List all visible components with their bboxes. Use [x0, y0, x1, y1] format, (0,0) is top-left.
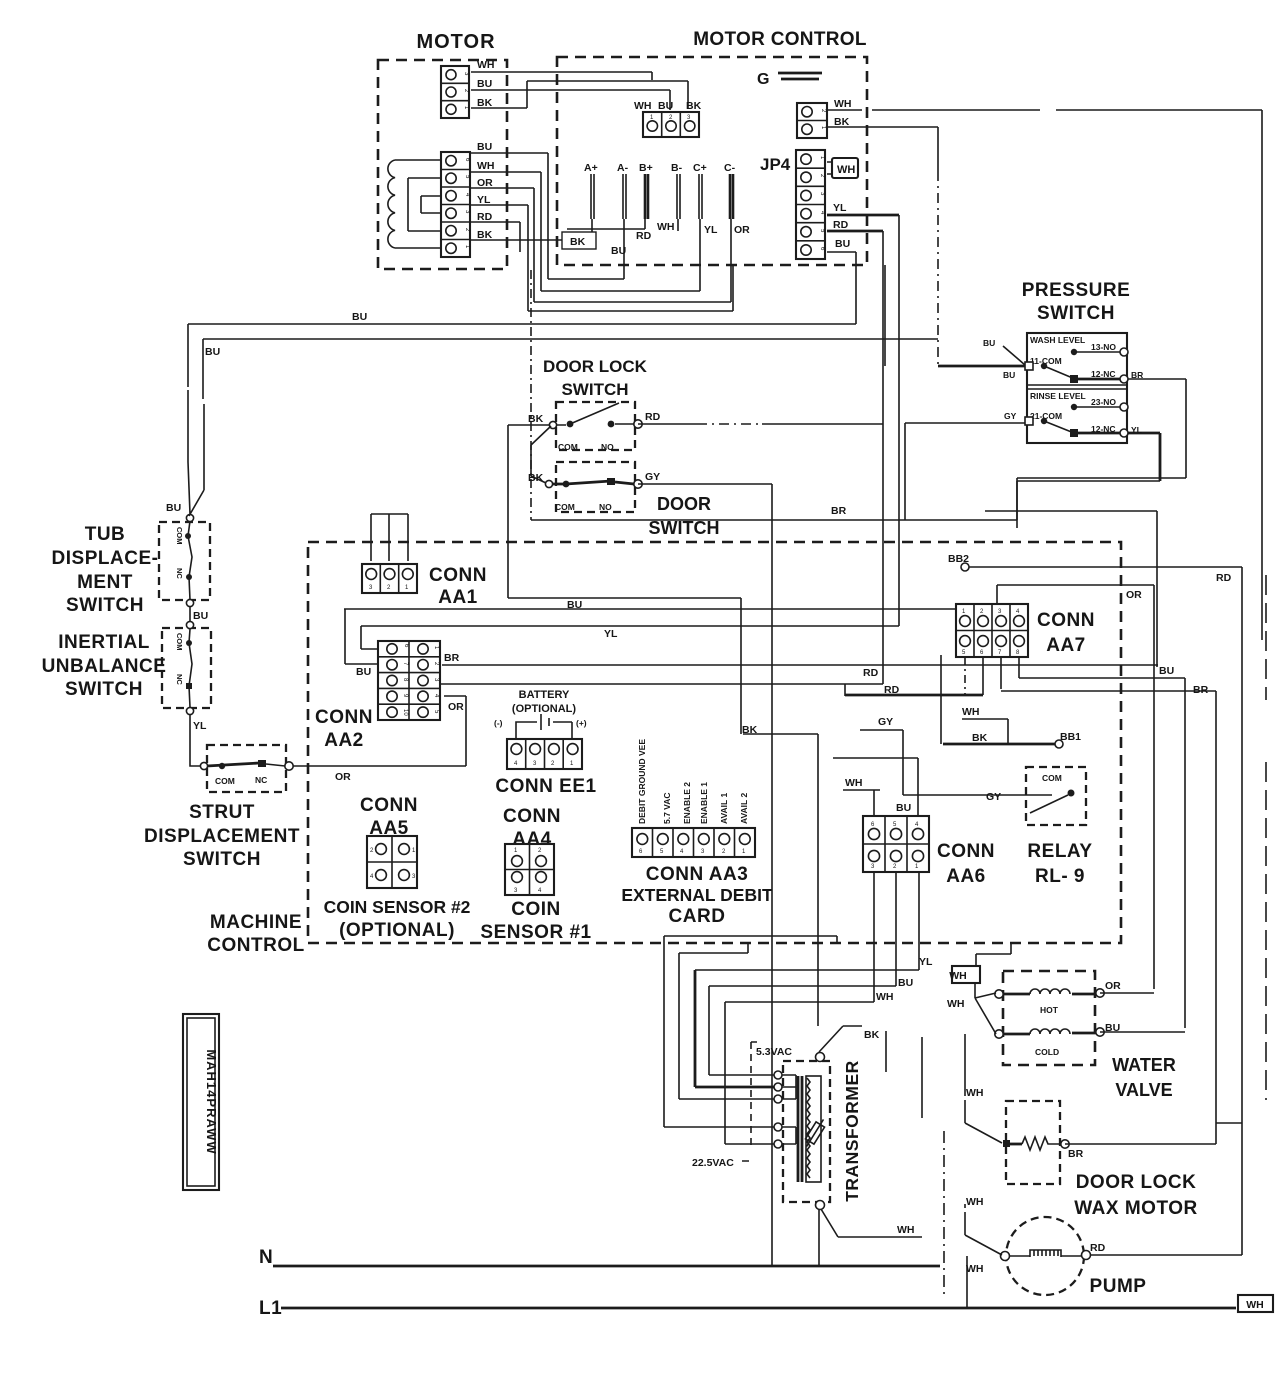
svg-text:(OPTIONAL): (OPTIONAL) — [339, 920, 455, 941]
svg-text:WH: WH — [834, 98, 852, 110]
svg-text:13-NO: 13-NO — [1091, 342, 1116, 352]
svg-text:12-NC: 12-NC — [1091, 369, 1116, 379]
svg-text:CONN: CONN — [315, 707, 373, 728]
svg-text:BU: BU — [611, 245, 626, 257]
svg-text:SWITCH: SWITCH — [183, 849, 261, 870]
svg-text:PUMP: PUMP — [1090, 1276, 1147, 1297]
svg-text:BU: BU — [477, 78, 492, 90]
svg-text:MOTOR: MOTOR — [416, 31, 495, 53]
svg-text:CONN EE1: CONN EE1 — [495, 776, 596, 797]
svg-text:AA1: AA1 — [438, 587, 478, 608]
svg-text:COM: COM — [555, 502, 575, 512]
svg-text:AA6: AA6 — [946, 866, 986, 887]
svg-text:BR: BR — [831, 505, 847, 517]
svg-text:STRUT: STRUT — [189, 802, 255, 823]
svg-text:WH: WH — [477, 59, 495, 71]
svg-text:CONN: CONN — [1037, 610, 1095, 631]
svg-text:DOOR: DOOR — [657, 494, 711, 514]
svg-text:ENABLE 1: ENABLE 1 — [699, 782, 709, 824]
svg-text:BU: BU — [567, 599, 582, 611]
svg-text:RINSE LEVEL: RINSE LEVEL — [1030, 391, 1086, 401]
svg-text:RD: RD — [645, 411, 661, 423]
svg-text:CONN AA3: CONN AA3 — [646, 864, 749, 885]
svg-text:BK: BK — [477, 229, 493, 241]
svg-text:WH: WH — [634, 100, 652, 112]
svg-text:BU: BU — [193, 610, 208, 622]
svg-text:UNBALANCE: UNBALANCE — [42, 656, 167, 677]
svg-text:RL- 9: RL- 9 — [1035, 866, 1085, 887]
svg-text:BK: BK — [528, 413, 544, 425]
svg-text:BU: BU — [477, 141, 492, 153]
svg-text:WH: WH — [876, 991, 894, 1003]
svg-text:BU: BU — [205, 346, 220, 358]
svg-text:NO: NO — [599, 502, 612, 512]
svg-text:BU: BU — [166, 502, 181, 514]
svg-text:SWITCH: SWITCH — [65, 679, 143, 700]
svg-text:AA4: AA4 — [512, 829, 552, 850]
svg-text:NO: NO — [601, 442, 614, 452]
svg-text:BR: BR — [1193, 684, 1209, 696]
svg-text:A-: A- — [617, 162, 629, 174]
svg-text:C+: C+ — [693, 162, 707, 174]
svg-text:ENABLE 2: ENABLE 2 — [682, 782, 692, 824]
svg-text:GY: GY — [986, 791, 1001, 803]
svg-text:NC: NC — [255, 775, 267, 785]
svg-text:DOOR LOCK: DOOR LOCK — [543, 357, 648, 376]
svg-text:WH: WH — [657, 221, 675, 233]
svg-text:NC: NC — [175, 674, 184, 685]
svg-text:CONN: CONN — [360, 795, 418, 816]
svg-text:A+: A+ — [584, 162, 598, 174]
svg-text:BB2: BB2 — [948, 553, 969, 565]
svg-text:BU: BU — [1105, 1022, 1120, 1034]
svg-text:C-: C- — [724, 162, 736, 174]
svg-text:BK: BK — [528, 472, 544, 484]
svg-text:INERTIAL: INERTIAL — [58, 632, 150, 653]
svg-text:WH: WH — [837, 164, 855, 176]
svg-text:B+: B+ — [639, 162, 653, 174]
svg-text:SWITCH: SWITCH — [649, 518, 720, 538]
svg-text:COLD: COLD — [1035, 1047, 1059, 1057]
svg-text:BR: BR — [444, 652, 460, 664]
svg-text:SWITCH: SWITCH — [561, 380, 628, 399]
svg-text:N: N — [259, 1247, 273, 1268]
svg-text:COIN: COIN — [511, 899, 561, 920]
svg-text:OR: OR — [448, 701, 464, 713]
svg-text:WH: WH — [1246, 1299, 1264, 1311]
svg-text:SENSOR #1: SENSOR #1 — [480, 922, 591, 943]
svg-text:BR: BR — [1068, 1148, 1084, 1160]
svg-text:BU: BU — [898, 977, 913, 989]
svg-text:RD: RD — [1216, 572, 1232, 584]
svg-text:BK: BK — [742, 724, 758, 736]
svg-text:COIN SENSOR #2: COIN SENSOR #2 — [324, 897, 471, 917]
svg-text:RD: RD — [477, 211, 493, 223]
svg-text:TRANSFORMER: TRANSFORMER — [842, 1060, 862, 1202]
svg-text:BU: BU — [658, 100, 673, 112]
svg-text:YL: YL — [604, 628, 618, 640]
svg-text:L1: L1 — [259, 1298, 282, 1319]
svg-text:OR: OR — [335, 771, 351, 783]
svg-text:WH: WH — [962, 706, 980, 718]
svg-text:GY: GY — [1004, 411, 1017, 421]
svg-text:RD: RD — [833, 219, 849, 231]
svg-text:BK: BK — [864, 1029, 880, 1041]
svg-text:WH: WH — [897, 1224, 915, 1236]
svg-text:MACHINE: MACHINE — [210, 912, 302, 933]
svg-text:YL: YL — [704, 224, 718, 236]
svg-text:DISPLACE-: DISPLACE- — [52, 548, 159, 569]
svg-text:22.5VAC: 22.5VAC — [692, 1157, 734, 1169]
svg-text:MAH14PRAWW: MAH14PRAWW — [204, 1049, 219, 1154]
svg-text:SWITCH: SWITCH — [66, 595, 144, 616]
svg-text:JP4: JP4 — [760, 155, 791, 174]
svg-text:CONN: CONN — [429, 565, 487, 586]
svg-text:BK: BK — [570, 236, 586, 248]
svg-text:BR: BR — [1131, 370, 1143, 380]
svg-text:YL: YL — [193, 720, 207, 732]
svg-text:BB1: BB1 — [1060, 731, 1081, 743]
svg-text:WH: WH — [949, 970, 967, 982]
svg-text:MENT: MENT — [77, 572, 133, 593]
svg-text:AVAIL 1: AVAIL 1 — [719, 793, 729, 824]
svg-text:DISPLACEMENT: DISPLACEMENT — [144, 826, 300, 847]
svg-text:SWITCH: SWITCH — [1037, 303, 1115, 324]
svg-text:YL: YL — [477, 194, 491, 206]
svg-text:WAX MOTOR: WAX MOTOR — [1074, 1198, 1197, 1219]
svg-text:OR: OR — [1126, 589, 1142, 601]
svg-text:WH: WH — [966, 1263, 984, 1275]
svg-text:BU: BU — [896, 802, 911, 814]
svg-text:BU: BU — [1003, 370, 1015, 380]
svg-text:COM: COM — [558, 442, 578, 452]
svg-text:AA7: AA7 — [1046, 635, 1086, 656]
svg-text:5.7 VAC: 5.7 VAC — [662, 793, 672, 825]
svg-text:BK: BK — [834, 116, 850, 128]
svg-text:COM: COM — [1042, 773, 1062, 783]
svg-text:BU: BU — [352, 311, 367, 323]
svg-text:CONN: CONN — [503, 806, 561, 827]
svg-text:YL: YL — [833, 202, 847, 214]
svg-text:WH: WH — [845, 777, 863, 789]
svg-text:(+): (+) — [576, 718, 587, 728]
svg-text:BU: BU — [835, 238, 850, 250]
svg-text:BK: BK — [477, 97, 493, 109]
svg-text:BK: BK — [972, 732, 988, 744]
svg-text:WH: WH — [477, 160, 495, 172]
svg-text:RD: RD — [863, 667, 879, 679]
svg-text:CONN: CONN — [937, 841, 995, 862]
svg-text:RD: RD — [636, 230, 652, 242]
svg-text:WH: WH — [966, 1087, 984, 1099]
svg-text:COM: COM — [175, 527, 184, 545]
svg-text:HOT: HOT — [1040, 1005, 1059, 1015]
svg-text:BU: BU — [983, 338, 995, 348]
svg-text:(OPTIONAL): (OPTIONAL) — [512, 703, 576, 715]
svg-text:YL: YL — [919, 956, 933, 968]
svg-text:DEBIT GROUND VEE: DEBIT GROUND VEE — [637, 739, 647, 824]
svg-text:PRESSURE: PRESSURE — [1022, 280, 1131, 301]
svg-text:WH: WH — [966, 1196, 984, 1208]
svg-text:10: 10 — [402, 709, 408, 716]
svg-text:AA2: AA2 — [324, 730, 364, 751]
svg-text:OR: OR — [477, 177, 493, 189]
svg-text:GY: GY — [645, 471, 660, 483]
svg-text:OR: OR — [734, 224, 750, 236]
svg-text:BK: BK — [686, 100, 702, 112]
svg-text:EXTERNAL DEBIT: EXTERNAL DEBIT — [621, 885, 773, 905]
svg-text:COM: COM — [215, 776, 235, 786]
svg-text:(-): (-) — [494, 718, 503, 728]
svg-text:TUB: TUB — [85, 524, 126, 545]
svg-text:OR: OR — [1105, 980, 1121, 992]
svg-text:WASH LEVEL: WASH LEVEL — [1030, 335, 1085, 345]
svg-text:NC: NC — [175, 568, 184, 579]
svg-text:BU: BU — [1159, 665, 1174, 677]
svg-text:VALVE: VALVE — [1115, 1080, 1172, 1100]
svg-text:B-: B- — [671, 162, 683, 174]
svg-text:GY: GY — [878, 716, 893, 728]
svg-text:WATER: WATER — [1112, 1055, 1176, 1075]
svg-text:CARD: CARD — [669, 906, 726, 927]
svg-text:5.3VAC: 5.3VAC — [756, 1046, 792, 1058]
svg-text:BATTERY: BATTERY — [519, 689, 570, 701]
svg-text:WH: WH — [947, 998, 965, 1010]
svg-text:CONTROL: CONTROL — [207, 935, 304, 956]
svg-text:MOTOR CONTROL: MOTOR CONTROL — [693, 29, 867, 50]
svg-text:COM: COM — [175, 633, 184, 651]
svg-text:DOOR LOCK: DOOR LOCK — [1076, 1172, 1197, 1193]
svg-text:RELAY: RELAY — [1027, 841, 1092, 862]
svg-text:RD: RD — [1090, 1242, 1106, 1254]
svg-text:AVAIL 2: AVAIL 2 — [739, 793, 749, 824]
svg-text:BU: BU — [356, 666, 371, 678]
svg-text:G: G — [757, 71, 769, 88]
svg-text:23-NO: 23-NO — [1091, 397, 1116, 407]
svg-text:YL: YL — [1131, 425, 1142, 435]
svg-text:RD: RD — [884, 684, 900, 696]
